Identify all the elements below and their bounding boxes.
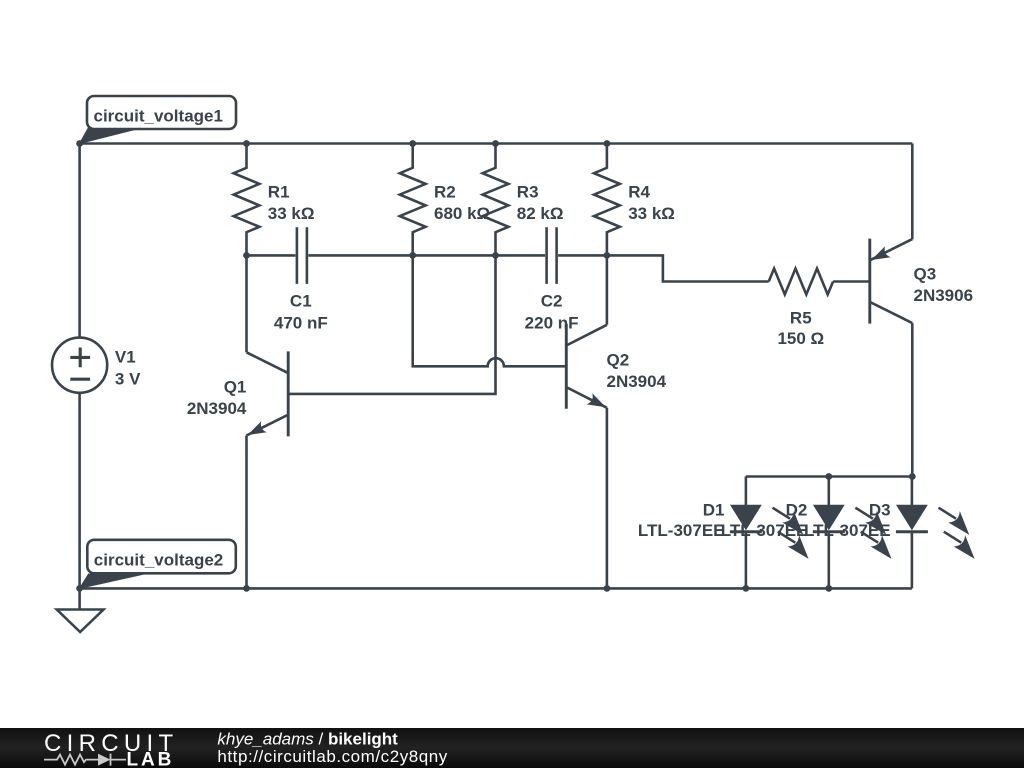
- svg-text:LTL-307EE: LTL-307EE: [804, 521, 891, 540]
- junction R3 bottom / C2: [492, 252, 499, 259]
- junction R2 top: [409, 140, 416, 147]
- svg-text:Q1: Q1: [224, 378, 247, 397]
- wire Q2 emitter lead: [606, 408, 609, 589]
- svg-text:2N3904: 2N3904: [607, 372, 667, 391]
- wire left rail above V1: [78, 144, 81, 338]
- junction D3 anode / Q3 collector: [909, 473, 916, 480]
- wire bottom ground rail: [80, 587, 912, 590]
- junction D1 cathode on ground rail: [743, 585, 750, 592]
- voltage source V1 3V: [52, 338, 107, 393]
- LED D1 LTL-307EE: [745, 477, 748, 506]
- capacitor C2 220nF: [547, 227, 557, 284]
- net flag circuit_voltage1: [80, 128, 143, 144]
- svg-text:D3: D3: [869, 501, 891, 520]
- svg-text:R2: R2: [434, 183, 456, 202]
- svg-text:V1: V1: [115, 348, 136, 367]
- svg-text:circuit_voltage1: circuit_voltage1: [94, 107, 223, 126]
- svg-text:2N3906: 2N3906: [914, 286, 974, 305]
- svg-text:D2: D2: [786, 501, 808, 520]
- svg-text:150 Ω: 150 Ω: [777, 329, 824, 348]
- LED D3 LTL-307EE: [911, 477, 914, 506]
- wire Q2 collector lead: [606, 255, 609, 324]
- transistor Q2 2N3904: [565, 324, 568, 409]
- wire mid rail C2 to R4: [558, 254, 607, 257]
- junction D2 cathode on ground rail: [825, 585, 832, 592]
- svg-text:33 kΩ: 33 kΩ: [628, 204, 675, 223]
- net flag circuit_voltage2: [80, 574, 144, 588]
- resistor R3 82k: [483, 144, 509, 256]
- resistor R2 680k: [400, 144, 426, 256]
- svg-text:C1: C1: [290, 292, 312, 311]
- svg-text:33 kΩ: 33 kΩ: [268, 204, 315, 223]
- CircuitLab logo: [44, 730, 178, 768]
- resistor R5 150: [769, 269, 833, 295]
- resistor R4 33k: [594, 144, 620, 256]
- capacitor C1 470nF: [297, 227, 307, 284]
- wire mid rail R3 to C2: [496, 254, 546, 257]
- svg-text:82 kΩ: 82 kΩ: [517, 204, 564, 223]
- wire R3 node to Q1 base: [288, 255, 495, 394]
- wire Q1 emitter lead: [245, 436, 248, 589]
- junction R4 top: [604, 140, 611, 147]
- wire mid rail C1 to R2: [308, 254, 412, 257]
- svg-text:R4: R4: [628, 183, 650, 202]
- svg-text:circuit_voltage2: circuit_voltage2: [94, 551, 223, 570]
- junction V1+ on top rail: [76, 140, 83, 147]
- svg-text:R1: R1: [268, 183, 290, 202]
- svg-text:Q3: Q3: [914, 265, 937, 284]
- svg-text:220 nF: 220 nF: [525, 313, 579, 332]
- svg-text:khye_adams / bikelight: khye_adams / bikelight: [217, 730, 398, 749]
- wire right drop to Q3 emitter: [911, 144, 914, 240]
- junction R3 top: [492, 140, 499, 147]
- svg-text:470 nF: 470 nF: [274, 313, 328, 332]
- junction R1 bottom / C1 / Q1 collector: [243, 252, 250, 259]
- wire LED top rail: [746, 475, 912, 478]
- transistor Q1 2N3904: [287, 351, 290, 436]
- junction R1 top: [243, 140, 250, 147]
- wire R4 node step down to R5: [607, 255, 769, 281]
- wire Q3 collector lead to LEDs: [911, 323, 914, 476]
- wire top power rail: [80, 142, 913, 145]
- wire mid rail R1 to C1: [247, 254, 296, 257]
- junction D2 anode on LED rail: [825, 473, 832, 480]
- svg-text:C2: C2: [541, 292, 563, 311]
- junction Q2 emitter on ground rail: [604, 585, 611, 592]
- wire R2 node to Q2 base with hop over R3 wire: [413, 255, 567, 366]
- svg-text:R5: R5: [790, 309, 812, 328]
- junction Q1 emitter on ground rail: [243, 585, 250, 592]
- svg-text:D1: D1: [703, 501, 725, 520]
- svg-text:LTL-307EE: LTL-307EE: [638, 521, 725, 540]
- junction V1- on ground rail: [76, 585, 83, 592]
- svg-text:680 kΩ: 680 kΩ: [434, 204, 490, 223]
- resistor R1 33k: [234, 144, 260, 256]
- svg-text:R3: R3: [517, 183, 539, 202]
- LED D2 LTL-307EE: [827, 477, 830, 506]
- svg-text:2N3904: 2N3904: [187, 399, 247, 418]
- junction R4 bottom / C2 / Q2 collector: [604, 252, 611, 259]
- svg-text:LTL-307EE: LTL-307EE: [721, 521, 808, 540]
- svg-text:http://circuitlab.com/c2y8qny: http://circuitlab.com/c2y8qny: [217, 747, 447, 766]
- svg-text:Q2: Q2: [607, 351, 630, 370]
- wire Q1 collector lead: [245, 255, 248, 352]
- svg-text:LAB: LAB: [127, 750, 175, 768]
- transistor Q3 2N3906: [868, 239, 871, 324]
- wire mid rail R2 to R3: [413, 254, 496, 257]
- junction R2 bottom: [409, 252, 416, 259]
- wire left rail below V1: [78, 393, 81, 589]
- footer attribution text: [217, 730, 447, 767]
- svg-text:3 V: 3 V: [115, 370, 141, 389]
- ground symbol: [78, 588, 81, 609]
